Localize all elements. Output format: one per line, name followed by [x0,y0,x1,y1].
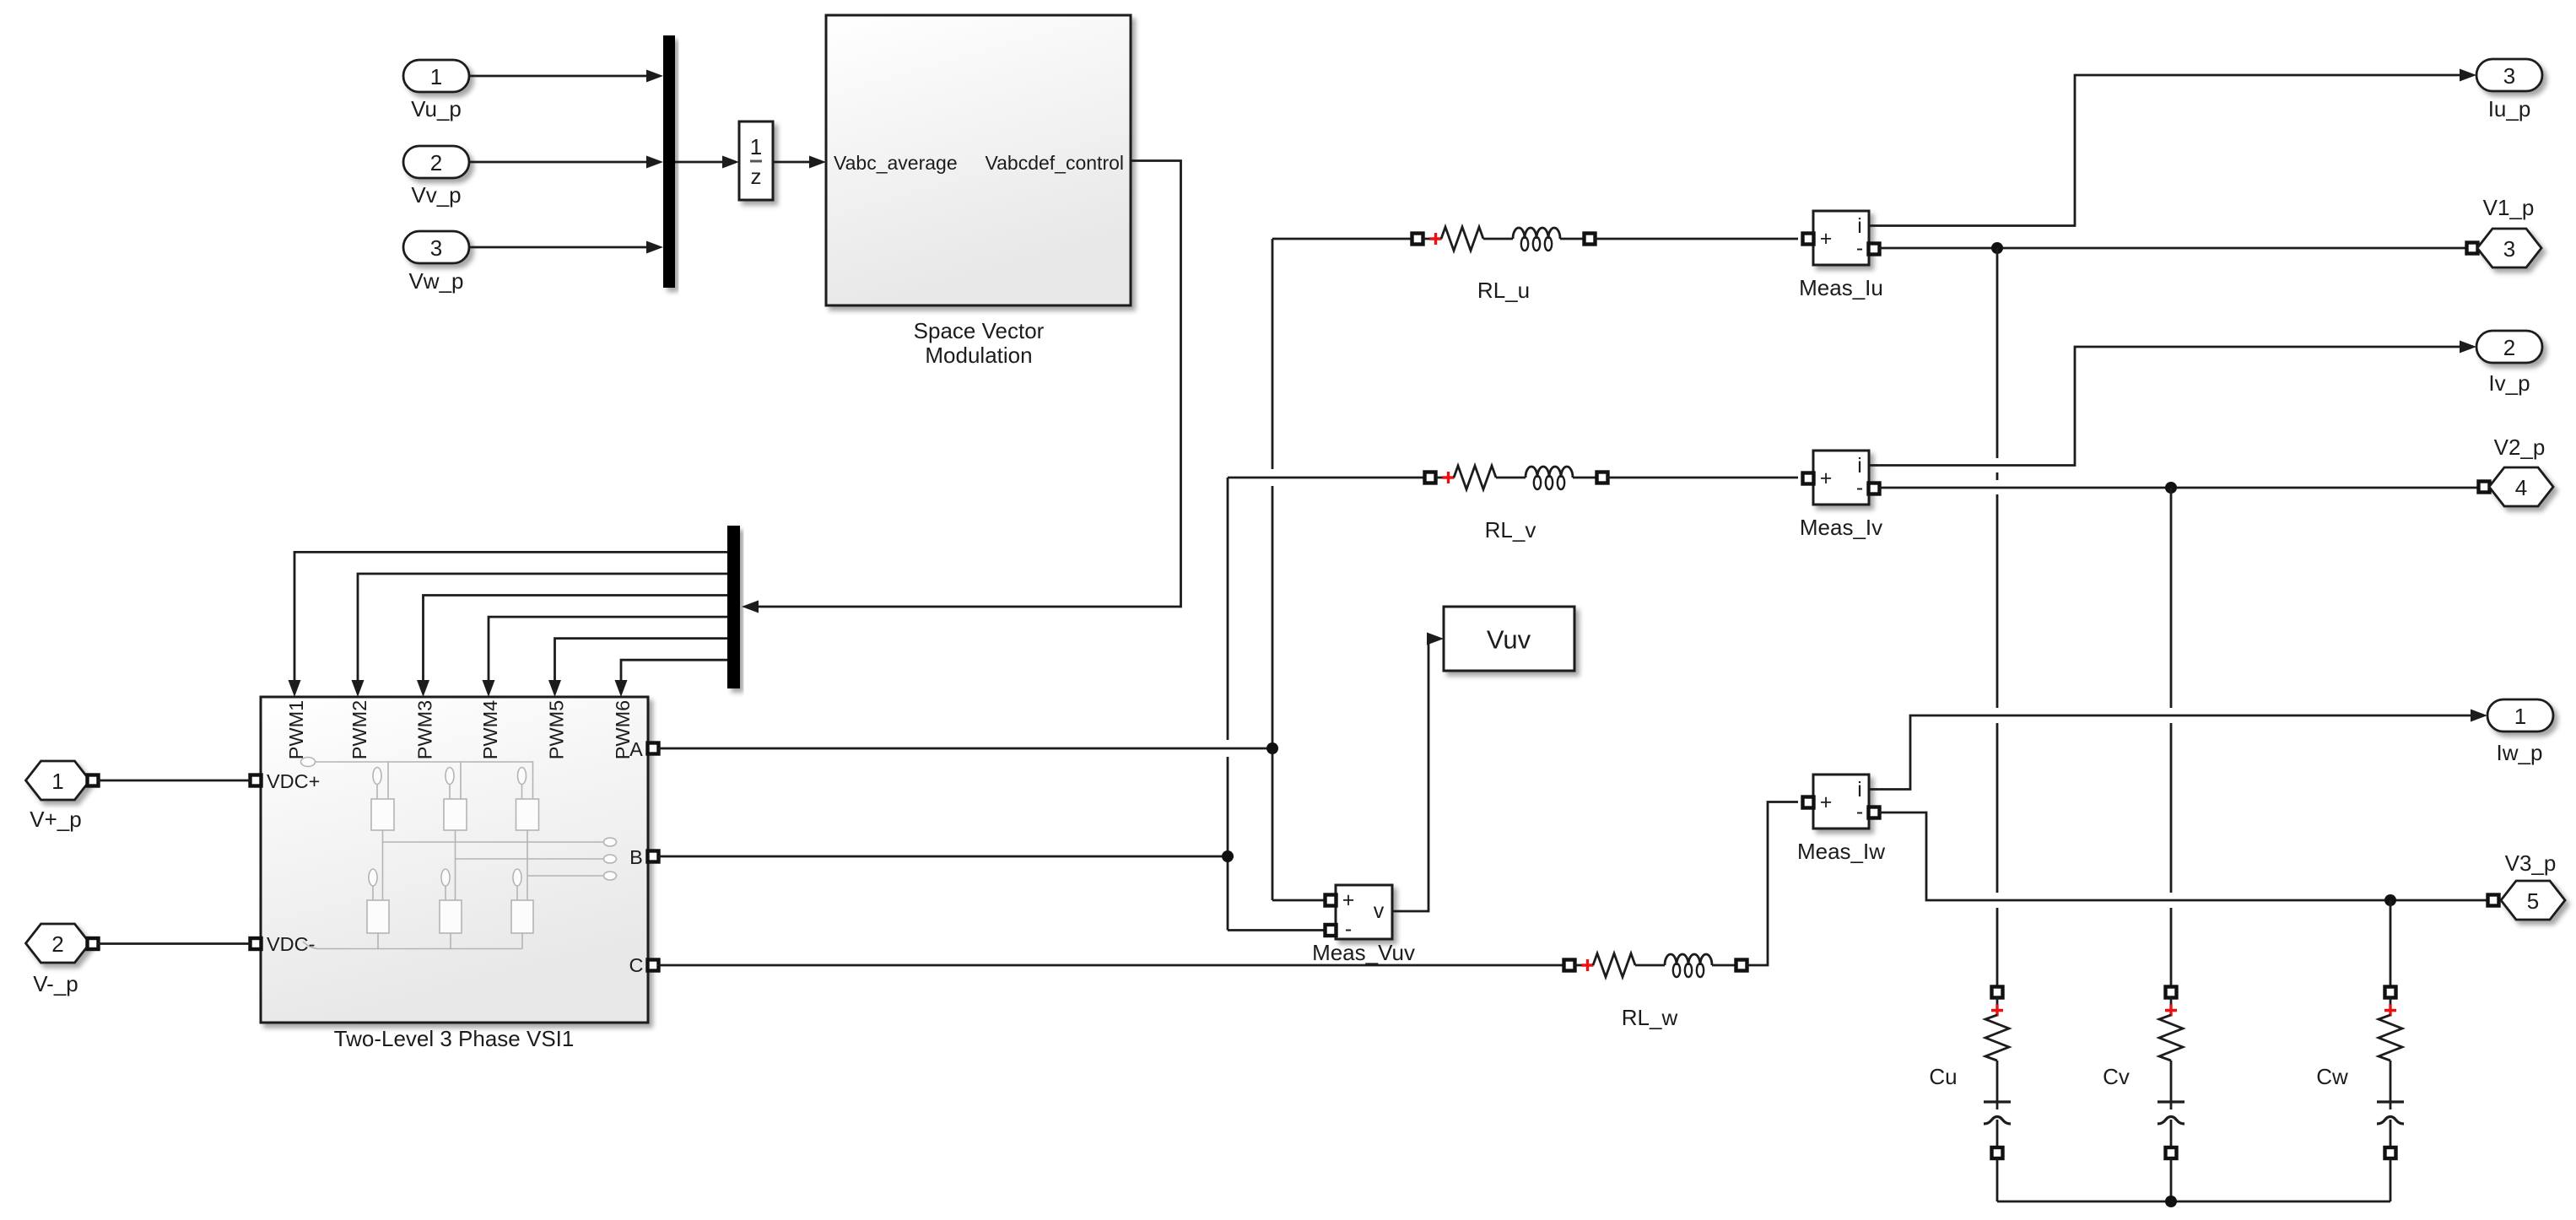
svg-text:2: 2 [430,150,442,175]
wire SVM output to demux [742,161,1181,613]
polarity mark + of Cu [1991,1005,2003,1017]
terminal (top) of Cv [2166,987,2177,998]
svg-text:v: v [1374,899,1385,923]
svg-text:V2_p: V2_p [2494,435,2546,460]
pin C of VSI1 [648,960,659,971]
pin A of VSI1 [648,743,659,754]
capacitor part of Cw [2377,1100,2404,1103]
pin + of Meas_Vuv [1326,895,1337,906]
svg-text:V3_p: V3_p [2505,850,2557,876]
svg-text:-: - [1856,236,1863,260]
svg-text:z: z [751,164,762,189]
svg-text:Vw_p: Vw_p [408,268,463,294]
svg-text:Vabc_average: Vabc_average [834,152,958,174]
wire Cv tap down to Cv [2170,488,2173,987]
svg-text:VDC-: VDC- [267,933,315,955]
wire Cw tap down to Cw [2390,900,2392,987]
svg-text:Meas_Iv: Meas_Iv [1800,515,1882,540]
svg-text:Cw: Cw [2316,1064,2348,1089]
connection port 3 V1_p [2477,195,2541,267]
resistor part of Cu [1985,1015,2009,1061]
current sensor Meas_Iv [1813,451,1869,505]
inductor part of RL_u [1513,228,1560,239]
pin of V+_p [88,775,99,786]
wire Meas_Iu - output to V1_p and Cu [1879,247,2467,250]
wire Meas_Iv i output to Iv_p [1869,341,2476,466]
series RC branch Cu [1929,987,2011,1202]
pin of V-_p [88,938,99,949]
svg-text:5: 5 [2527,888,2539,914]
svg-text:PWM1: PWM1 [285,700,307,760]
polarity mark + of Cw [2384,1005,2396,1017]
svg-text:RL_w: RL_w [1622,1005,1678,1030]
polarity mark + of Cv [2165,1005,2177,1017]
svg-text:Iw_p: Iw_p [2497,740,2543,765]
svg-text:VDC+: VDC+ [267,770,320,792]
subsystem U1 Space Vector Modulation [826,15,1131,368]
resistor part of RL_u [1441,227,1483,251]
pin VDC- of VSI1 [251,938,262,949]
svg-text:B: B [629,846,643,868]
junction Cu tap [1991,242,2003,254]
svg-text:Iu_p: Iu_p [2488,96,2531,121]
junction node A [1266,742,1278,754]
outport 2 Iv_p [2476,331,2542,396]
svg-text:PWM5: PWM5 [546,700,568,760]
wire demux to PWM3 [417,596,727,698]
pin + of Meas_Iw [1803,797,1814,808]
wire Meas_Vuv v output to Vuv display [1392,633,1444,912]
wire Vw_p to mux [469,241,663,254]
wire node C: VSI C output to RL_w [658,964,1564,967]
series RC branch Cw [2316,987,2404,1202]
pin VDC+ of VSI1 [251,775,262,786]
inport 3 Vw_p [403,231,469,294]
pin - of Meas_Iu [1869,244,1880,255]
wire RL_w to Meas_Iw [1747,802,1798,966]
svg-text:Meas_Vuv: Meas_Vuv [1312,940,1415,965]
svg-text:PWM4: PWM4 [479,700,501,760]
pin of V3_p [2488,895,2499,906]
svg-text:Meas_Iu: Meas_Iu [1799,275,1883,300]
svg-text:Iv_p: Iv_p [2488,370,2530,396]
terminal (right) of RL_u [1585,234,1596,245]
terminal (bottom) of Cv [2166,1147,2177,1158]
wire Meas_Iw - output to V3_p and Cw [1879,812,2488,900]
svg-text:+: + [1820,467,1833,490]
pin - of Meas_Vuv [1326,925,1337,936]
outport 3 Iu_p [2476,59,2542,121]
terminal (left) of RL_u [1412,234,1423,245]
wire Cu tap down to Cu [1996,248,1999,987]
svg-text:1: 1 [750,134,762,159]
wire unit delay to SVM [773,156,826,169]
inductor part of RL_w [1665,954,1712,965]
capacitor part of Cu [1984,1100,2011,1103]
display block Vuv [1444,607,1574,671]
svg-text:+: + [1342,888,1355,912]
terminal (top) of Cu [1992,987,2003,998]
pin + of Meas_Iv [1803,473,1814,484]
wire RL_v to Meas_Iv [1607,477,1798,479]
inductor part of RL_v [1526,467,1573,478]
mux M1 [663,35,675,288]
demux D1 [727,526,740,688]
wire demux to PWM6 [615,660,728,697]
wire bottom bus joining Cu Cv Cw [1997,1201,2390,1203]
connection port 2 V-_p [26,924,90,996]
terminal (left) of RL_w [1564,960,1575,971]
wire demux to PWM1 [289,552,728,697]
terminal (right) of RL_v [1597,472,1608,483]
inport 1 Vu_p [403,60,469,121]
svg-text:Meas_Iw: Meas_Iw [1797,839,1885,864]
svg-text:1: 1 [2514,704,2526,729]
voltage sensor Meas_Vuv [1336,885,1392,941]
svg-text:PWM3: PWM3 [414,700,436,760]
svg-text:Two-Level 3 Phase VSI1: Two-Level 3 Phase VSI1 [334,1026,575,1051]
terminal (bottom) of Cw [2385,1147,2396,1158]
svg-text:V+_p: V+_p [30,807,81,832]
junction Cv tap [2165,482,2177,494]
svg-text:V-_p: V-_p [33,971,78,996]
wire demux to PWM4 [483,617,728,697]
svg-text:3: 3 [430,235,442,261]
pin - of Meas_Iv [1869,483,1880,494]
svg-text:Modulation: Modulation [925,343,1032,368]
polarity mark + of RL_w [1582,959,1594,971]
svg-text:4: 4 [2515,475,2527,500]
subsystem Two-Level 3 Phase VSI1 [261,697,648,1023]
junction node B [1222,850,1234,862]
connection port 1 V+_p [26,761,90,832]
svg-text:Vuv: Vuv [1487,625,1531,655]
wire demux to PWM5 [548,639,727,697]
wire RL_u to Meas_Iu [1595,238,1798,240]
svg-text:1: 1 [51,769,63,794]
pin of V2_p [2479,482,2490,493]
svg-text:V1_p: V1_p [2483,195,2535,220]
svg-text:A: A [629,738,643,760]
svg-text:RL_v: RL_v [1485,517,1536,543]
port labels PWM1-PWM6 of VSI1 [285,700,634,760]
wire Meas_Iw i output to Iw_p [1869,710,2487,790]
terminal (top) of Cw [2385,987,2396,998]
svg-text:3: 3 [2503,236,2515,262]
svg-text:-: - [1856,800,1863,823]
resistor part of Cv [2159,1015,2183,1061]
svg-text:Cv: Cv [2103,1064,2130,1089]
inport 2 Vv_p [403,146,469,208]
svg-text:Vv_p: Vv_p [411,182,461,208]
svg-text:2: 2 [51,931,63,957]
wire demux to PWM2 [352,574,728,697]
svg-text:-: - [1345,917,1352,941]
svg-text:1: 1 [430,64,442,89]
pin - of Meas_Iw [1869,807,1880,818]
svg-text:+: + [1820,791,1833,814]
series RL branch RL_v [1425,466,1608,489]
wire V+_p to VDC+ [98,780,251,782]
resistor part of RL_v [1454,466,1496,489]
pin + of Meas_Iu [1803,234,1814,245]
wire node B: VSI B output to RL_v and Meas_Vuv - [658,478,1425,931]
junction Cw tap [2384,894,2396,906]
series RL branch RL_w [1564,953,1747,977]
series RL branch RL_u [1412,227,1596,251]
polarity mark + of RL_u [1430,233,1442,245]
wire Vv_p to mux [469,156,663,169]
connection port 5 V3_p [2501,850,2565,920]
capacitor part of Cv [2157,1100,2184,1103]
svg-text:i: i [1857,778,1862,802]
series RC branch Cv [2103,987,2184,1202]
internal bridge icon of VSI1 [301,758,617,949]
svg-text:i: i [1857,454,1862,478]
terminal (left) of RL_v [1425,472,1436,483]
resistor part of RL_w [1593,953,1635,977]
pin of V1_p [2467,243,2478,254]
current sensor Meas_Iu [1813,211,1869,265]
unit delay block 1/z [739,121,773,200]
wire Meas_Iv - output to V2_p and Cv [1879,487,2479,489]
svg-text:3: 3 [2503,63,2515,89]
junction bottom bus [2165,1196,2177,1207]
wire Vu_p to mux [469,70,663,83]
svg-text:RL_u: RL_u [1477,278,1530,303]
svg-text:i: i [1857,214,1862,238]
svg-text:+: + [1820,227,1833,251]
svg-text:Vabcdef_control: Vabcdef_control [985,152,1124,174]
svg-text:2: 2 [2503,335,2515,360]
svg-text:C: C [629,954,644,976]
polarity mark + of RL_v [1443,472,1455,483]
svg-text:PWM2: PWM2 [348,700,370,760]
outport 1 Iw_p [2487,699,2553,765]
connection port 4 V2_p [2489,435,2553,506]
wire V-_p to VDC- [98,942,251,945]
svg-text:Cu: Cu [1929,1064,1957,1089]
svg-text:Vu_p: Vu_p [411,96,462,121]
pin B of VSI1 [648,851,659,862]
wire mux to unit delay [675,156,739,169]
wire node A: VSI A output to RL_u and Meas_Vuv + [658,239,1412,900]
svg-text:-: - [1856,476,1863,499]
terminal (right) of RL_w [1736,960,1747,971]
resistor part of Cw [2379,1015,2402,1061]
svg-text:Space Vector: Space Vector [914,318,1045,343]
current sensor Meas_Iw [1813,775,1869,829]
wire Meas_Iu i output to Iu_p [1869,69,2476,226]
terminal (bottom) of Cu [1992,1147,2003,1158]
